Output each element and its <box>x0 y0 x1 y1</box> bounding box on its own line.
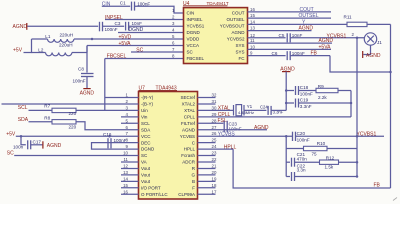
svg-text:FB: FB <box>374 183 381 189</box>
junction dot +5VD rail <box>91 38 94 41</box>
wire R8 to U7 pin6 <box>76 122 139 130</box>
wire FBCSEL branch to U7 pin1 <box>105 97 139 99</box>
op IC U4 TDA4941T title <box>183 1 229 7</box>
svg-text:YCVBS1: YCVBS1 <box>187 24 205 29</box>
svg-text:C6: C6 <box>272 51 278 56</box>
svg-text:32: 32 <box>212 93 217 98</box>
wire HPLL loop down <box>233 149 390 188</box>
wire C17 branch <box>21 136 26 145</box>
IC U7 left pin stubs <box>121 116 139 118</box>
svg-text:HPLL: HPLL <box>224 145 237 151</box>
svg-text:220uH: 220uH <box>59 42 73 47</box>
wire C24 to AGND rail <box>271 109 286 111</box>
svg-text:YCVBSOUT: YCVBSOUT <box>220 24 245 29</box>
svg-text:AGND: AGND <box>319 38 334 44</box>
svg-text:-(B-Y): -(B-Y) <box>141 102 153 107</box>
resistor R11 <box>344 14 368 26</box>
svg-text:10nF: 10nF <box>132 21 143 26</box>
svg-text:+5VA: +5VA <box>119 41 132 47</box>
svg-text:24: 24 <box>212 144 217 149</box>
junction dot loop <box>350 102 353 105</box>
svg-text:21: 21 <box>212 163 217 168</box>
junction dot YCVBS1 <box>356 135 359 138</box>
wire net to U7 pin2 <box>2 103 139 105</box>
capacitor C6 100nF <box>272 51 306 60</box>
svg-text:YCVBS1: YCVBS1 <box>357 132 377 138</box>
svg-text:C20: C20 <box>297 131 306 136</box>
svg-text:12: 12 <box>123 163 128 168</box>
wire rail2 to R10 <box>286 148 303 150</box>
svg-text:14: 14 <box>250 19 255 24</box>
wire rail2 to C21 <box>286 161 290 163</box>
svg-text:C1: C1 <box>120 1 126 6</box>
svg-text:C18: C18 <box>300 85 309 90</box>
svg-text:C19: C19 <box>300 98 309 103</box>
svg-text:OUTSEL: OUTSEL <box>299 13 319 19</box>
svg-text:SC: SC <box>187 50 194 55</box>
svg-text:C16: C16 <box>103 132 112 137</box>
svg-text:C3: C3 <box>115 21 121 26</box>
wire AGND11 net <box>248 42 333 44</box>
capacitor C21 470n <box>292 152 308 167</box>
svg-text:100nF: 100nF <box>300 92 313 97</box>
junction dot C18 row <box>285 89 288 92</box>
wire FBCSEL to U4 pin8 <box>105 58 184 60</box>
wire C20 to YCVBS1 net <box>296 135 384 137</box>
svg-text:AGND: AGND <box>182 127 196 132</box>
wire C8 drop <box>86 46 88 73</box>
wire loop rail <box>350 91 352 117</box>
svg-text:DGND: DGND <box>141 147 155 152</box>
wire C5 to J1 <box>291 37 365 39</box>
wire FSL stub <box>198 122 224 124</box>
wire rail2 to C22 <box>286 176 290 178</box>
wire CPLL to loop rail <box>198 116 352 118</box>
wire C19 to loop rail <box>299 102 351 104</box>
wire R11 to right rail <box>367 23 391 25</box>
svg-text:TDA4941T: TDA4941T <box>207 1 229 6</box>
junction dot C17 tap <box>20 135 23 138</box>
svg-text:VA: VA <box>141 160 147 165</box>
wire Y net to R11 <box>248 23 348 25</box>
wire +5V feed <box>24 39 32 53</box>
svg-text:470n: 470n <box>297 156 308 161</box>
junction dot right rail <box>389 71 392 74</box>
svg-text:29: 29 <box>212 112 217 117</box>
capacitor C5 10nF <box>279 33 303 42</box>
svg-text:DGND: DGND <box>187 30 201 35</box>
resistor R12 1.5k <box>320 155 339 169</box>
svg-text:SECref: SECref <box>180 95 195 100</box>
wire R7 to U7 pin3 <box>76 109 139 111</box>
svg-text:75: 75 <box>312 151 318 156</box>
svg-text:Vout: Vout <box>141 173 151 178</box>
wire +5V rail to U7 pin7 <box>16 135 139 137</box>
power symbol AGND at C17 <box>43 141 62 149</box>
svg-text:16: 16 <box>250 7 255 12</box>
power symbol AGND top-left <box>13 23 28 30</box>
wire SCL to R7 <box>29 109 53 111</box>
capacitor C22 3.3n <box>292 163 306 181</box>
wire J1 drop rail <box>356 38 358 177</box>
svg-text:11: 11 <box>123 157 128 162</box>
svg-text:+5V: +5V <box>6 131 16 137</box>
capacitor C8 100nF <box>73 66 94 88</box>
svg-text:OUTSEL: OUTSEL <box>226 17 245 22</box>
wire rail2 <box>285 136 287 176</box>
wire C3 to U4 pin3 <box>129 25 184 27</box>
junction dot rail2 top <box>285 135 288 138</box>
capacitor C2 100nF <box>100 22 118 32</box>
svg-text:R8: R8 <box>44 116 50 121</box>
wire C2 to C3 <box>103 25 124 27</box>
svg-text:YCVBS2: YCVBS2 <box>227 37 245 42</box>
inductor L1 220uH <box>32 32 184 42</box>
svg-text:FBCSEL: FBCSEL <box>187 56 205 61</box>
svg-text:YCVBS: YCVBS <box>180 134 195 139</box>
svg-text:SC: SC <box>7 150 14 156</box>
svg-text:14: 14 <box>123 176 128 181</box>
wire C17 to AGND <box>31 144 43 146</box>
IC U7 right pin stubs <box>198 97 216 99</box>
svg-text:SYS: SYS <box>235 50 244 55</box>
svg-text:CPLL: CPLL <box>184 114 196 119</box>
svg-text:+5V: +5V <box>13 48 23 54</box>
svg-text:Fcrash: Fcrash <box>181 153 195 158</box>
capacitor C18 100nF <box>296 85 314 96</box>
svg-text:1.5k: 1.5k <box>325 165 334 170</box>
svg-text:B: B <box>192 179 195 184</box>
svg-text:100nF: 100nF <box>105 27 118 32</box>
resistor R8 220 <box>44 116 76 130</box>
svg-text:25: 25 <box>212 138 217 143</box>
svg-text:19: 19 <box>212 176 217 181</box>
wire COUT net <box>248 11 332 13</box>
svg-text:Vin: Vin <box>141 114 148 119</box>
junction dot C19 row <box>285 102 288 105</box>
capacitor C17 100n <box>13 140 41 150</box>
svg-text:+5VD: +5VD <box>119 34 132 40</box>
svg-text:G: G <box>191 173 195 178</box>
svg-text:FILTref: FILTref <box>181 121 196 126</box>
svg-text:-(R-Y): -(R-Y) <box>141 95 154 100</box>
wire +5VA row to U4 pin6 <box>87 45 184 47</box>
wire rail to C19 <box>286 102 294 104</box>
svg-text:HPLL: HPLL <box>184 147 196 152</box>
capacitor C23 100nF <box>224 121 242 133</box>
svg-text:SYS: SYS <box>235 43 244 48</box>
svg-text:100nF: 100nF <box>292 51 305 56</box>
svg-text:FC: FC <box>239 56 246 61</box>
svg-text:26: 26 <box>212 131 217 136</box>
svg-text:220: 220 <box>69 124 77 129</box>
svg-text:C8: C8 <box>78 66 84 71</box>
svg-text:FB: FB <box>311 51 318 57</box>
svg-text:Uin: Uin <box>141 108 148 113</box>
svg-text:220: 220 <box>69 111 77 116</box>
wire AGND rail <box>285 72 287 111</box>
svg-text:15: 15 <box>123 183 128 188</box>
svg-text:Vout: Vout <box>141 179 151 184</box>
svg-text:VDDD: VDDD <box>187 37 201 42</box>
svg-text:AGND: AGND <box>80 90 95 96</box>
wire SDA to R8 <box>29 121 53 123</box>
svg-text:15: 15 <box>250 13 255 18</box>
wire +5VA right net <box>248 48 332 50</box>
svg-text:SCL: SCL <box>18 105 28 111</box>
svg-text:16: 16 <box>123 189 128 194</box>
capacitor C24 3.3nF <box>260 105 284 115</box>
svg-text:2.2k: 2.2k <box>318 95 327 100</box>
svg-text:11: 11 <box>250 38 255 43</box>
wire C1 to U4 pin1 <box>135 6 184 13</box>
junction dot C22 join <box>356 175 359 178</box>
svg-text:13: 13 <box>250 26 255 31</box>
svg-text:C24: C24 <box>260 105 268 110</box>
svg-text:3.3n: 3.3n <box>297 168 306 173</box>
svg-text:100nF: 100nF <box>73 78 86 83</box>
svg-text:SDA: SDA <box>18 117 29 123</box>
svg-text:100nF: 100nF <box>297 137 310 142</box>
wire J1 ground drop <box>363 45 370 54</box>
svg-text:C17: C17 <box>33 140 42 145</box>
svg-text:AGND: AGND <box>366 53 381 59</box>
wire R9 to loop rail <box>338 90 351 92</box>
junction dot J1 branch <box>356 37 359 40</box>
svg-text:10: 10 <box>250 44 255 49</box>
svg-text:27: 27 <box>212 125 217 130</box>
svg-text:10nF: 10nF <box>292 33 303 38</box>
crystal Y1 4.43MHz <box>234 104 255 116</box>
svg-text:CIN: CIN <box>187 11 195 16</box>
svg-text:COUT: COUT <box>300 7 314 13</box>
wire YCVBS2 to C5 <box>248 37 286 39</box>
svg-text:12: 12 <box>250 33 255 38</box>
svg-text:30: 30 <box>212 105 217 110</box>
wire FBCSEL drop to U7 <box>104 59 106 111</box>
svg-text:XTAL2: XTAL2 <box>182 102 196 107</box>
wire right rail down <box>390 24 392 188</box>
wire FB loop to right rail <box>330 56 391 72</box>
svg-text:18: 18 <box>212 183 217 188</box>
capacitor C16 100nF <box>103 132 127 149</box>
svg-text:I/O PORT: I/O PORT <box>141 185 161 190</box>
svg-text:J1: J1 <box>377 40 382 45</box>
wire XTAL to crystal <box>198 109 234 111</box>
svg-text:AGND: AGND <box>299 26 314 32</box>
wire crystal to C24 <box>244 109 266 111</box>
wire SC to U7 pin10 <box>14 155 138 157</box>
wire R10 to J1 rail <box>327 148 357 150</box>
svg-text:L2: L2 <box>38 48 44 53</box>
svg-text:+5VA: +5VA <box>319 44 332 50</box>
svg-text:3.3nF: 3.3nF <box>300 104 312 109</box>
wire FC to C6 <box>248 55 286 57</box>
svg-text:O PORT/LLC: O PORT/LLC <box>141 192 168 197</box>
svg-text:XTAL: XTAL <box>184 108 195 113</box>
wire CIN to C1 <box>102 5 130 7</box>
svg-text:SDA: SDA <box>141 127 150 132</box>
junction dot C16 tap <box>108 135 111 138</box>
svg-text:AGND: AGND <box>13 24 28 30</box>
svg-text:28: 28 <box>212 118 217 123</box>
svg-text:220uH: 220uH <box>60 32 74 37</box>
svg-text:SCL: SCL <box>141 121 150 126</box>
svg-text:AGND: AGND <box>254 125 269 131</box>
wire HPLL net <box>198 148 234 150</box>
wire SC to U4 pin7 <box>131 51 184 53</box>
wire INPSEL to U4 pin2 <box>105 19 184 21</box>
power symbol AGND below C8 <box>80 89 95 97</box>
IC U7 body <box>139 92 198 200</box>
capacitor C20 100nF <box>293 131 310 142</box>
svg-text:31: 31 <box>212 99 217 104</box>
svg-text:R7: R7 <box>44 104 50 109</box>
wire YCVBS to C20 <box>198 135 293 137</box>
connector J1 <box>364 33 382 45</box>
svg-text:R11: R11 <box>344 14 353 19</box>
power symbol AGND mid <box>280 67 295 73</box>
svg-text:SC: SC <box>141 153 148 158</box>
wire DEC loop <box>92 143 139 149</box>
svg-text:R10: R10 <box>317 141 326 146</box>
decor corner mark <box>393 198 397 201</box>
wire AGND27 net <box>198 129 268 131</box>
svg-text:AGND: AGND <box>47 143 62 149</box>
IC U4 body <box>184 8 248 64</box>
wire rail to C18 <box>286 90 294 92</box>
svg-text:DEC: DEC <box>141 140 151 145</box>
svg-text:C5: C5 <box>279 33 285 38</box>
svg-text:INPSEL: INPSEL <box>187 17 204 22</box>
inductor L2 220uH <box>32 42 88 55</box>
svg-text:20: 20 <box>212 170 217 175</box>
resistor R9 2.2k <box>316 84 338 100</box>
capacitor C19 3.3nF <box>296 98 312 109</box>
wire AGND13 net <box>248 30 312 32</box>
junction dot R12 join <box>356 161 359 164</box>
wire C22 to J1 rail <box>295 176 357 178</box>
wire DGND stub U4 pin4 <box>118 32 184 34</box>
svg-text:VCC: VCC <box>141 134 151 139</box>
op IC U7 TDA4943 title <box>139 86 178 92</box>
svg-text:22: 22 <box>212 157 217 162</box>
wire C18 to R9 <box>299 90 316 92</box>
svg-text:VCCA: VCCA <box>187 43 200 48</box>
svg-text:ADCR: ADCR <box>182 160 196 165</box>
svg-text:Vout: Vout <box>141 166 151 171</box>
wire OUTSEL net <box>248 17 332 19</box>
svg-text:17: 17 <box>212 189 217 194</box>
resistor R7 220 <box>44 104 76 116</box>
capacitor C1 100nF <box>120 1 151 11</box>
svg-text:CLP99A: CLP99A <box>178 192 195 197</box>
wire R12 to J1 rail <box>339 161 358 163</box>
svg-text:DGND: DGND <box>129 27 144 33</box>
svg-text:COUT: COUT <box>232 11 245 16</box>
svg-text:10: 10 <box>123 151 128 156</box>
svg-text:AGND: AGND <box>231 30 245 35</box>
wire C6 to corner <box>291 55 331 57</box>
svg-text:Y1: Y1 <box>247 104 253 109</box>
svg-text:F: F <box>192 185 195 190</box>
wire C21 to R12 <box>295 161 320 163</box>
power symbol AGND at J1 <box>363 51 381 59</box>
svg-text:23: 23 <box>212 151 217 156</box>
wire L2 up to +5VA row <box>86 46 88 53</box>
resistor R10 75 <box>304 141 328 156</box>
capacitor C3 10nF <box>115 21 143 31</box>
svg-text:INPSEL: INPSEL <box>105 15 123 21</box>
wire AGND to C2 <box>27 25 98 27</box>
svg-text:13: 13 <box>123 170 128 175</box>
svg-text:100n: 100n <box>13 145 24 150</box>
